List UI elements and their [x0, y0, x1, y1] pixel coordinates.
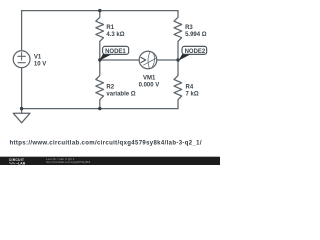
svg-text:NODE2: NODE2 — [185, 49, 206, 55]
svg-text:https://www.circuitlab.com/cir: https://www.circuitlab.com/circuit/qxg45… — [10, 141, 202, 147]
svg-text:VM1: VM1 — [143, 75, 156, 81]
svg-text:R4: R4 — [186, 84, 194, 90]
svg-text:4.3 kΩ: 4.3 kΩ — [106, 32, 124, 38]
svg-text:10 V: 10 V — [34, 62, 46, 68]
svg-text:NODE1: NODE1 — [105, 49, 126, 55]
svg-text:R1: R1 — [106, 25, 114, 31]
svg-text:▪LAB: ▪LAB — [16, 162, 25, 166]
svg-text:V1: V1 — [34, 55, 42, 61]
svg-text:variable Ω: variable Ω — [106, 91, 135, 97]
svg-text:http://circuitlab.com/cqxg4579: http://circuitlab.com/cqxg4579sy8k4 — [46, 160, 91, 164]
svg-text:R3: R3 — [185, 25, 193, 31]
svg-text:5.994 Ω: 5.994 Ω — [185, 32, 207, 38]
svg-text:0.000 V: 0.000 V — [139, 82, 160, 88]
svg-text:7 kΩ: 7 kΩ — [186, 91, 199, 97]
svg-text:R2: R2 — [106, 84, 114, 90]
